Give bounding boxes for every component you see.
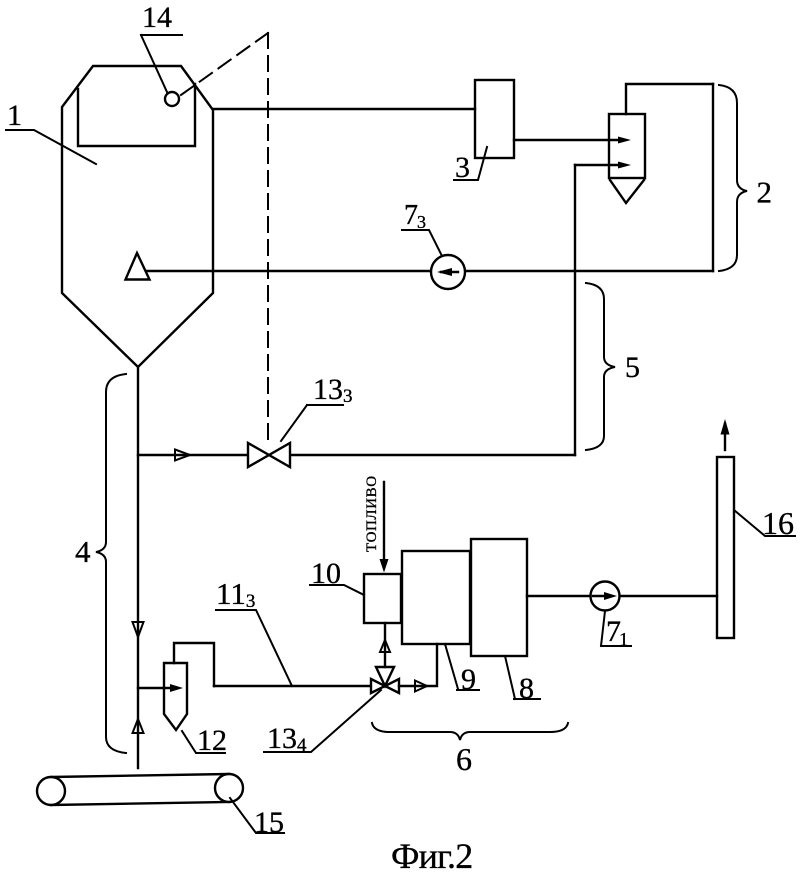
arrowhead into separator top bbox=[618, 137, 631, 144]
wire box 8 to fan 7_1 bbox=[527, 595, 591, 597]
svg-text:Фиг.2: Фиг.2 bbox=[391, 836, 472, 876]
label 16 leader bbox=[734, 510, 795, 536]
svg-text:6: 6 bbox=[456, 741, 472, 777]
svg-text:71: 71 bbox=[606, 615, 629, 651]
svg-text:12: 12 bbox=[197, 724, 227, 757]
separator top pipe bbox=[626, 84, 713, 114]
open up arrow below burner bbox=[380, 640, 390, 652]
svg-text:10: 10 bbox=[311, 557, 341, 590]
arrow in 7_1 pointing right bbox=[593, 595, 610, 597]
label 13_3 leader bbox=[281, 405, 343, 441]
label 11_3 leader bbox=[216, 610, 292, 686]
valve 13_4 three-way bbox=[371, 667, 399, 693]
open arrow on wire bbox=[175, 450, 190, 461]
vessel 1 outline bbox=[62, 66, 213, 367]
svg-text:4: 4 bbox=[75, 534, 91, 569]
valve 13_3 bbox=[248, 443, 290, 467]
box 9 bbox=[402, 551, 470, 644]
label 15 leader bbox=[230, 798, 284, 833]
downcomer pipe 4 bbox=[137, 367, 139, 768]
label 9 leader bbox=[445, 644, 479, 690]
label 8 leader bbox=[505, 656, 540, 699]
wire 7_1 to stack 16 bbox=[620, 595, 717, 597]
pump circle 7_3 bbox=[431, 255, 465, 289]
fuel arrow bbox=[383, 482, 385, 562]
label 12 leader bbox=[182, 731, 225, 753]
svg-text:134: 134 bbox=[267, 722, 307, 756]
svg-text:3: 3 bbox=[455, 151, 470, 184]
svg-text:133: 133 bbox=[313, 373, 353, 407]
wire box3 to separator bbox=[514, 139, 617, 141]
svg-text:9: 9 bbox=[461, 663, 476, 696]
loop 5 vertical wire bbox=[574, 165, 576, 455]
brace 4 bbox=[96, 374, 126, 753]
brace 2 bbox=[719, 85, 747, 271]
svg-text:73: 73 bbox=[404, 200, 426, 232]
svg-text:5: 5 bbox=[625, 351, 640, 384]
unit 12 body bbox=[164, 663, 187, 730]
brace 6 bbox=[372, 723, 568, 740]
conveyor 15 belt bbox=[51, 774, 229, 805]
box 3 bbox=[475, 80, 514, 158]
svg-text:16: 16 bbox=[762, 505, 794, 541]
svg-text:8: 8 bbox=[519, 672, 534, 705]
label 13_4 leader bbox=[264, 690, 381, 752]
label 14 bbox=[141, 35, 182, 92]
unit 12 top pipe bbox=[174, 643, 214, 686]
right return line bbox=[712, 84, 714, 271]
svg-text:2: 2 bbox=[757, 175, 773, 210]
wire valve up to burner 10 bbox=[384, 623, 386, 667]
wire return line to vessel triangle bbox=[147, 270, 713, 272]
dashed diagonal bbox=[181, 33, 268, 95]
wire second pass to separator bbox=[575, 164, 618, 166]
dashed vertical bbox=[267, 33, 269, 443]
box 8 bbox=[471, 539, 527, 656]
label 3 leader bbox=[454, 147, 487, 180]
label 7_3 leader bbox=[402, 230, 442, 256]
arrow in 7_3 pointing left bbox=[441, 271, 458, 273]
separator vessel of unit 2 bbox=[609, 114, 645, 178]
wire unit 12 to valve 13_4 bbox=[214, 685, 371, 687]
sensor circle 14 bbox=[165, 92, 179, 106]
fan circle 7_1 bbox=[591, 582, 620, 611]
svg-text:15: 15 bbox=[254, 806, 284, 839]
open arrow on wire bbox=[415, 681, 427, 692]
vessel 1 inner chamber bbox=[78, 84, 195, 146]
svg-text:113: 113 bbox=[216, 576, 255, 612]
open down arrow on pipe bbox=[133, 622, 144, 637]
wire pipe into unit 12 bbox=[138, 687, 172, 689]
wire pipe to valve 13_3 and to loop 5 bbox=[138, 454, 575, 456]
brace 5 bbox=[586, 283, 615, 450]
svg-text:14: 14 bbox=[142, 1, 172, 34]
conveyor left roller bbox=[37, 777, 65, 805]
exhaust arrow above 16 bbox=[724, 424, 726, 450]
triangle nozzle inside vessel bbox=[126, 253, 150, 280]
label 10 leader bbox=[310, 585, 364, 595]
stack 16 bbox=[717, 457, 734, 638]
wire vessel to box 3 bbox=[213, 108, 475, 110]
open up arrow on pipe bbox=[133, 719, 144, 733]
conveyor right roller bbox=[215, 774, 243, 802]
svg-text:ТОПЛИВО: ТОПЛИВО bbox=[364, 475, 380, 552]
separator funnel bbox=[610, 180, 644, 203]
svg-text:1: 1 bbox=[7, 99, 22, 132]
label 7_1 leader bbox=[601, 611, 631, 646]
burner box 10 bbox=[364, 574, 401, 623]
wire valve to box 9 bbox=[399, 644, 437, 686]
label 1 leader bbox=[6, 130, 96, 164]
